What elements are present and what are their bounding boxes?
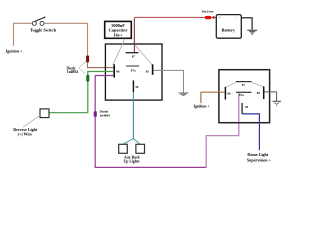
- svg-text:30: 30: [135, 85, 139, 89]
- svg-text:85: 85: [146, 70, 150, 74]
- relay U2 diagonal to pin 85: [252, 82, 264, 87]
- relay U2 pin 30: [241, 103, 243, 114]
- svg-text:87: 87: [242, 83, 246, 87]
- svg-text:Toggle Switch: Toggle Switch: [30, 28, 57, 33]
- svg-text:16v+: 16v+: [113, 33, 123, 38]
- aux back up light box 1: [119, 144, 128, 153]
- svg-text:-: -: [236, 15, 237, 19]
- svg-text:87: 87: [132, 54, 136, 58]
- wire fuse to battery with arrowhead: [211, 17, 213, 19]
- relay U2 pin 87a bar: [236, 91, 252, 93]
- svg-text:30: 30: [245, 105, 249, 109]
- pink wire bottom run to relay2 pin 87a: [206, 93, 239, 168]
- svg-text:Ignition +: Ignition +: [6, 49, 23, 53]
- blue wire relay2 pin 30 to dome light: [242, 114, 259, 150]
- svg-text:1n4004: 1n4004: [67, 70, 78, 74]
- grey wire relay2 pin 85 to ground: [265, 92, 277, 101]
- svg-text:87a: 87a: [131, 68, 136, 72]
- toggle switch S1: [32, 21, 36, 25]
- relay U1 pin 87 bar: [126, 52, 139, 54]
- relay U1 diagonal to pin 86: [113, 39, 125, 66]
- relay U1 pin 85: [152, 64, 154, 75]
- wire ignition to toggle switch: [14, 23, 33, 46]
- reverse light tap box: [40, 109, 49, 118]
- relay U1 box: [105, 44, 162, 100]
- svg-text:Dome Light: Dome Light: [247, 152, 268, 157]
- relay U1 pin 86: [113, 64, 115, 77]
- brown wire ignition to relay2 pin 86: [201, 92, 225, 103]
- relay U2 diagonal to pin 86: [226, 82, 236, 87]
- diode D3 (purple): [94, 111, 97, 117]
- diode D1 1n4004: [86, 56, 89, 63]
- relay U1 pin 30: [132, 80, 134, 92]
- relay U2 box: [219, 70, 270, 123]
- ground (relay1): [179, 92, 189, 94]
- svg-text:Battery: Battery: [222, 28, 236, 33]
- relay U2 pin 85: [263, 87, 265, 100]
- diode D2 (green): [86, 75, 89, 82]
- wire toggle switch to diode D1: [44, 23, 87, 56]
- svg-text:85: 85: [257, 91, 261, 95]
- svg-text:87a: 87a: [239, 93, 244, 97]
- wire diode D1 to relay1 pin 86: [88, 62, 114, 68]
- svg-text:Ignition +: Ignition +: [194, 105, 210, 109]
- svg-text:(+) Wire: (+) Wire: [18, 132, 33, 137]
- relay U2 pin 86: [224, 87, 226, 100]
- green wire reverse light to relay1 pin 86: [49, 72, 114, 113]
- svg-text:Up Lights: Up Lights: [124, 159, 141, 163]
- aux back up light box 2: [136, 144, 145, 153]
- ground (battery): [247, 29, 257, 31]
- red wire relay1 87 to fuse: [133, 17, 135, 52]
- svg-text:Supervision +: Supervision +: [247, 158, 272, 163]
- label Reverse Light (+) Wire: [23, 116, 40, 128]
- svg-text:86: 86: [227, 92, 231, 96]
- relay U1 pin 87a bar: [126, 65, 139, 67]
- battery: [216, 15, 241, 39]
- teal wire relay1 pin 30 to aux lights: [132, 92, 134, 139]
- wire battery to ground: [241, 18, 252, 30]
- relay U2 pin 87 bar: [236, 81, 252, 83]
- svg-text:+: +: [219, 16, 221, 20]
- grey wire relay1 pin 85 to ground: [153, 70, 183, 92]
- ground (relay2): [273, 100, 282, 102]
- svg-text:30a Fuse: 30a Fuse: [202, 9, 215, 13]
- capacitor C1 label box: [105, 21, 132, 38]
- svg-text:1n4004: 1n4004: [100, 114, 111, 118]
- purple wire relay1 pin86 to bottom run: [95, 76, 206, 168]
- svg-text:86: 86: [116, 70, 120, 74]
- relay U1 diagonal to pin 85: [134, 44, 152, 65]
- fuse 30a: [205, 16, 212, 19]
